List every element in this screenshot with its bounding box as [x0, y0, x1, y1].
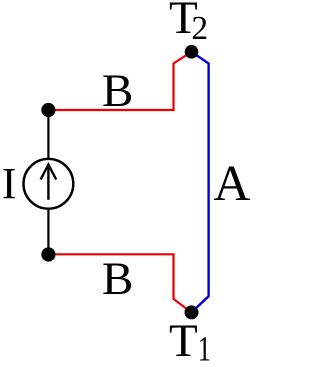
- wire: black lead from current source to bottom-left node: [47, 208, 49, 255]
- wire: black lead from top-left node to current source: [47, 110, 49, 160]
- svg-text:I: I: [2, 159, 17, 208]
- node T2 junction: [185, 45, 199, 59]
- svg-text:B: B: [102, 65, 133, 117]
- node: top-left junction: [41, 103, 55, 117]
- svg-text:1: 1: [198, 329, 211, 367]
- wire B top (red): [48, 52, 191, 110]
- current source I (circle with up arrow): [24, 159, 74, 209]
- svg-text:A: A: [213, 156, 250, 212]
- wire B bottom (red): [48, 254, 191, 312]
- svg-text:B: B: [102, 253, 133, 305]
- wire A (blue): [192, 52, 209, 313]
- node T1 junction: [185, 305, 199, 319]
- node: bottom-left junction: [41, 247, 55, 261]
- svg-text:2: 2: [191, 10, 208, 47]
- svg-text:T: T: [169, 315, 198, 367]
